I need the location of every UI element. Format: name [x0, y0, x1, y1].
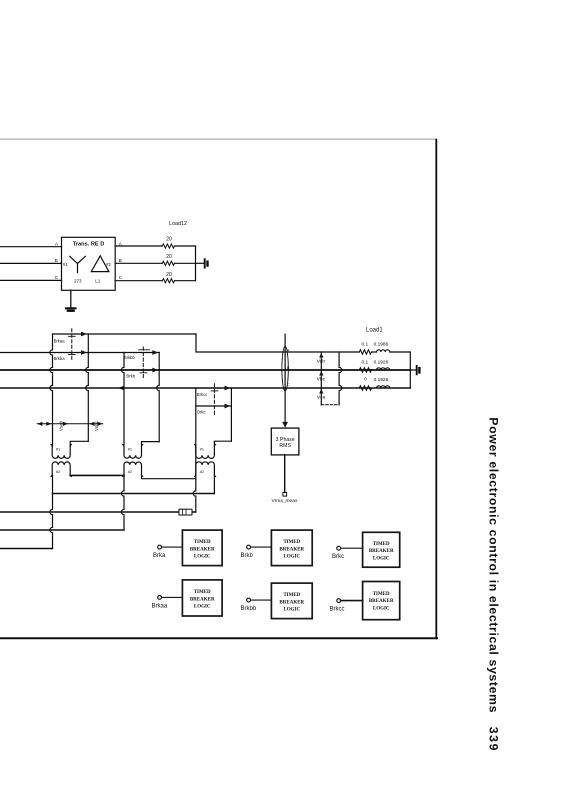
ground Load12: [196, 262, 204, 264]
probe arrow right of Vsab: [63, 422, 68, 426]
wire phase B left: [0, 262, 62, 264]
coil pair 3 winding #2: [195, 462, 216, 477]
svg-text:LOGIC: LOGIC: [283, 555, 300, 560]
svg-text:A: A: [55, 242, 59, 247]
svg-text:#2: #2: [200, 470, 204, 474]
terminal Brkb: [247, 545, 251, 549]
inductor 0.1926 row B: [377, 368, 390, 370]
coil pair 3 winding #1: [195, 445, 216, 459]
timed breaker logic box 6: [363, 582, 400, 620]
ground below transformer: [70, 290, 72, 307]
svg-text:RMS: RMS: [279, 443, 291, 449]
svg-text:0.1926: 0.1926: [374, 360, 389, 366]
wire A to load bus: [175, 245, 196, 247]
arrow on Brkaa wire: [81, 332, 87, 337]
svg-text:#1: #1: [63, 262, 68, 267]
coil pair 2 winding #2: [123, 462, 143, 476]
svg-text:Brkcc: Brkcc: [330, 607, 345, 613]
vertical group3 right: [230, 388, 232, 441]
wire breaker row Brkaa: [53, 333, 196, 335]
svg-text:B: B: [55, 258, 58, 263]
terminal Brkbb: [247, 598, 251, 602]
svg-text:Brkb: Brkb: [126, 373, 135, 378]
svg-text:A: A: [287, 348, 290, 352]
svg-text:B: B: [287, 366, 290, 370]
wire phase A right: [115, 245, 162, 247]
svg-text:Load1: Load1: [366, 327, 383, 333]
load1 row A wire: [372, 351, 377, 353]
svg-text:0.1926: 0.1926: [374, 377, 389, 383]
svg-text:LOGIC: LOGIC: [373, 556, 390, 561]
secondary vertical pair3 right: [213, 475, 215, 493]
svg-text:#2: #2: [56, 470, 60, 474]
svg-text:Brkba: Brkba: [54, 356, 66, 361]
link coil1 to coil2: [70, 474, 124, 476]
svg-text:0: 0: [364, 377, 367, 383]
svg-text:BREAKER: BREAKER: [190, 597, 215, 602]
svg-text:Vrms_meas: Vrms_meas: [272, 498, 298, 504]
resistor 0.1 row B: [359, 368, 371, 372]
vertical group3 left: [193, 388, 196, 512]
svg-text:BREAKER: BREAKER: [279, 600, 304, 605]
terminal Brkaa: [158, 596, 162, 600]
jog to coil3 right: [214, 441, 231, 446]
svg-text:Load12: Load12: [169, 221, 187, 227]
svg-text:Vbc: Vbc: [317, 376, 326, 382]
svg-text:C: C: [119, 275, 123, 280]
svg-text:#1: #1: [200, 448, 204, 452]
figure frame bottom: [0, 637, 437, 639]
svg-text:Brkb: Brkb: [241, 553, 254, 559]
wire C to load bus: [175, 280, 196, 282]
vertical group2 left: [121, 353, 124, 447]
svg-text:Vsab: Vsab: [59, 420, 64, 431]
vertical group1 right: [86, 334, 89, 441]
probe arrow into vertical1: [46, 422, 51, 426]
svg-text:BREAKER: BREAKER: [190, 547, 215, 552]
link coil2 to coil3: [142, 475, 196, 478]
svg-text:Brkc: Brkc: [197, 409, 205, 414]
delta symbol: [91, 256, 109, 272]
timed breaker logic box 1: [182, 530, 222, 566]
arrow bus C into group3 vertical: [225, 386, 231, 391]
svg-text:Brkaa: Brkaa: [54, 338, 66, 343]
timed breaker logic box 3: [363, 532, 400, 567]
svg-text:0.1986: 0.1986: [374, 342, 389, 348]
resistor 0 row C: [359, 386, 371, 390]
terminal Brka: [158, 545, 162, 549]
load12 bus: [195, 246, 197, 281]
bus secondary 1: [53, 493, 215, 495]
svg-text:20: 20: [166, 236, 172, 242]
probe return vertical with hops: [339, 352, 342, 405]
svg-text:L1: L1: [95, 279, 101, 284]
breaker Brkbb dashed: [142, 347, 144, 379]
step wire to load row A: [196, 334, 359, 352]
bus phase C: [0, 387, 410, 389]
bus secondary 2: [0, 511, 196, 513]
svg-text:TIMED: TIMED: [283, 593, 300, 598]
arrow bus B into group2 vertical: [152, 368, 158, 373]
wire phase A left: [0, 246, 62, 248]
wire phase B right: [115, 262, 162, 264]
svg-text:Brkbb: Brkbb: [241, 606, 257, 612]
inductor 0.1986 row A: [377, 350, 390, 352]
svg-text:TIMED: TIMED: [373, 542, 390, 547]
coil pair 1 winding #1: [51, 445, 71, 459]
svg-text:Brka: Brka: [153, 553, 166, 559]
svg-text:TIMED: TIMED: [283, 540, 300, 545]
block 3 Phase RMS: [271, 428, 299, 455]
probe arrow into vertical2: [89, 422, 94, 426]
vertical group2 right: [157, 353, 160, 442]
load1 right bus: [409, 352, 411, 388]
svg-text:#1: #1: [128, 448, 132, 452]
svg-text:LOGIC: LOGIC: [283, 608, 300, 613]
svg-text:BREAKER: BREAKER: [369, 599, 394, 604]
svg-text:Vsbc: Vsbc: [94, 420, 99, 431]
svg-text:LOGIC: LOGIC: [194, 555, 211, 560]
svg-text:0.1: 0.1: [361, 359, 368, 365]
terminal Brkc: [337, 546, 341, 550]
resistor 20 phase B: [162, 261, 174, 265]
terminal Brkcc: [337, 599, 341, 603]
vertical group1 left: [50, 334, 53, 446]
svg-text:C: C: [287, 383, 290, 387]
svg-text:Trans. RE D: Trans. RE D: [73, 242, 105, 248]
wire B to load bus: [175, 262, 196, 264]
arrow on Brkba wire: [81, 350, 87, 355]
figure frame right: [435, 140, 437, 639]
RMS tap bundle oval: [282, 346, 288, 391]
arrow into group2 vertical: [152, 350, 158, 355]
svg-text:Vab: Vab: [317, 359, 326, 365]
svg-text:Brkcc: Brkcc: [197, 392, 207, 397]
breaker Brkcc dashed: [213, 384, 215, 415]
probe arrow right end: [97, 422, 102, 426]
svg-text:339: 339: [487, 727, 501, 752]
svg-text:LOGIC: LOGIC: [194, 605, 211, 610]
svg-text:TIMED: TIMED: [194, 540, 211, 545]
wire phase C left: [0, 279, 62, 281]
svg-text:0.1: 0.1: [361, 341, 368, 347]
svg-text:TIMED: TIMED: [373, 592, 390, 597]
svg-text:Brkbb: Brkbb: [124, 355, 136, 360]
resistor 0.1 row A: [359, 350, 371, 354]
coil pair 1 winding #2: [51, 462, 71, 476]
secondary vertical pair2 left: [121, 475, 124, 530]
bus secondary 3: [0, 529, 124, 531]
arrow left on bus C at group2: [118, 386, 124, 391]
timed breaker logic box 2: [271, 530, 312, 566]
secondary vertical pair1 left: [50, 475, 53, 548]
bus secondary 4: [0, 548, 53, 550]
jog to coil2 right: [142, 442, 160, 446]
svg-text:20: 20: [166, 272, 172, 278]
wire breaker row Brkba: [0, 352, 159, 354]
probe arrow left end: [37, 422, 42, 426]
wire breaker row Brkc: [196, 405, 232, 407]
svg-text:#2: #2: [128, 470, 132, 474]
source voltage probe line: [37, 423, 103, 425]
wire phase C right: [115, 280, 162, 282]
svg-text:BREAKER: BREAKER: [369, 549, 394, 554]
svg-text:BREAKER: BREAKER: [279, 547, 304, 552]
breaker Brkaa dashed: [71, 329, 73, 362]
jog to coil1 right: [70, 441, 88, 446]
svg-text:Brkaa: Brkaa: [152, 603, 168, 609]
svg-text:TIMED: TIMED: [194, 590, 211, 595]
timed breaker logic box 4: [182, 580, 222, 616]
probe arrow to row A: [319, 353, 323, 358]
svg-text:#1: #1: [56, 448, 60, 452]
small block on bus 2: [179, 509, 192, 515]
probe arrow to row C: [319, 389, 323, 394]
RMS output wire: [284, 455, 286, 493]
timed breaker logic box 5: [271, 583, 312, 619]
svg-text:273: 273: [74, 278, 82, 283]
svg-text:20: 20: [166, 254, 172, 260]
RMS tap vertical: [284, 334, 286, 424]
svg-text:Vca: Vca: [317, 394, 326, 400]
arrow into RMS block: [282, 422, 288, 428]
probe arrow to row B: [319, 371, 323, 376]
transformer U1 box: [62, 237, 116, 290]
probe bottom link: [321, 404, 339, 406]
resistor 20 phase A: [162, 244, 174, 248]
inductor 0.1926 row C: [377, 386, 390, 388]
svg-text:C: C: [55, 275, 59, 280]
svg-text:#2: #2: [106, 262, 111, 267]
wye symbol: [70, 256, 86, 272]
svg-text:Power electronic control in el: Power electronic control in electrical s…: [487, 417, 501, 713]
svg-text:B: B: [119, 258, 122, 263]
svg-text:Brkc: Brkc: [332, 554, 344, 560]
terminal Vrms: [283, 492, 287, 496]
probe Vab vertical: [320, 352, 322, 405]
arrow on Brkc wire: [225, 404, 231, 409]
bus phase B: [0, 369, 410, 371]
resistor 20 phase C: [162, 279, 174, 283]
coil pair 2 winding #1: [123, 445, 143, 459]
figure frame top: [0, 138, 436, 140]
ground Load1: [410, 369, 415, 371]
svg-text:LOGIC: LOGIC: [373, 606, 390, 611]
